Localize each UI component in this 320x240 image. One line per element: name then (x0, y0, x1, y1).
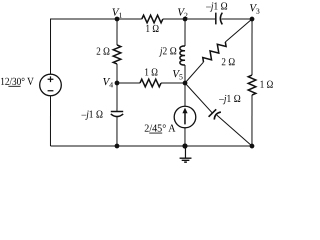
junction bottom left of capacitor (115, 144, 120, 149)
wire: top rail V1 to resistor R-top (117, 18, 142, 20)
wire: V3 down to resistor 1ohm right (251, 19, 253, 75)
current source 2/45 A (174, 106, 196, 128)
capacitor -j1ohm diagonal: lower wire (217, 115, 252, 146)
svg-text:–j1 Ω: –j1 Ω (218, 93, 240, 105)
resistor 2ohm diagonal (V5-V3): lower wire (185, 62, 204, 83)
svg-text:V1: V1 (112, 7, 123, 20)
wire: inductor to V5 (184, 65, 186, 83)
wire: left rail top (source top to top-left corner) (51, 19, 118, 74)
node V3 (250, 17, 255, 22)
wire: bottom rail (50, 145, 251, 147)
wire: resistor right to bottom-right corner (251, 95, 253, 146)
wire: V2 to capacitor C-top (185, 18, 215, 20)
wire: V2 down to inductor (184, 19, 186, 46)
voltage source 12/30 V (40, 74, 62, 96)
capacitor -j1ohm top (V2-V3) (215, 13, 217, 25)
node V5 (183, 81, 188, 86)
resistor 1ohm top (V1-V2) (142, 15, 163, 23)
svg-text:V2: V2 (177, 7, 188, 20)
ground (184, 146, 186, 158)
wire: capacitor to V3 (221, 18, 252, 20)
wire: V5 down to current source (184, 83, 186, 106)
wire: capacitor to bottom rail (116, 117, 118, 146)
svg-text:1 Ω: 1 Ω (144, 67, 158, 79)
svg-text:2 Ω: 2 Ω (96, 46, 110, 58)
wire: V4 to resistor 1ohm middle (117, 82, 140, 84)
resistor 2ohm diagonal zigzag (201, 39, 228, 65)
svg-text:2 Ω: 2 Ω (221, 56, 235, 68)
wire: V1 down to resistor 2ohm (116, 19, 118, 45)
capacitor -j1ohm diagonal (V5-bottom right): upper wire (185, 83, 212, 113)
resistor 1ohm middle (V4-V5) (140, 79, 161, 87)
svg-text:V3: V3 (249, 2, 260, 15)
node V2 (183, 17, 188, 22)
wire: top rail resistor to V2 (163, 18, 185, 20)
svg-text:1 Ω: 1 Ω (146, 23, 160, 35)
wire: current source to bottom rail (184, 128, 186, 146)
inductor j2ohm (V2-V5) (180, 46, 185, 65)
svg-text:V4: V4 (103, 76, 114, 89)
svg-text:j2 Ω: j2 Ω (158, 45, 177, 57)
node V1 (115, 17, 120, 22)
svg-text:–j1 Ω: –j1 Ω (81, 109, 103, 121)
svg-text:V5: V5 (172, 68, 183, 81)
capacitor -j1ohm diagonal: straight plate (209, 109, 217, 117)
resistor 2ohm diagonal: upper wire (225, 19, 252, 42)
wire: resistor middle to V5 (161, 82, 185, 84)
junction bottom center ground (182, 143, 187, 148)
resistor 1ohm right (V3-bottom) (248, 75, 256, 95)
wire: resistor 2ohm to V4 (116, 64, 118, 83)
svg-text:1 Ω: 1 Ω (260, 79, 274, 91)
svg-text:–j1 Ω: –j1 Ω (205, 1, 227, 13)
resistor 2ohm (V1-V4) (113, 45, 121, 64)
wire: left rail bottom (source bottom to bottom-left corner) (49, 96, 51, 146)
node V4 (115, 81, 120, 86)
capacitor -j1ohm left (V4-bottom rail) (111, 110, 123, 112)
wire: V4 down to capacitor (116, 83, 118, 112)
junction bottom right (250, 144, 255, 149)
capacitor -j1ohm diagonal: curved plate (214, 112, 221, 120)
